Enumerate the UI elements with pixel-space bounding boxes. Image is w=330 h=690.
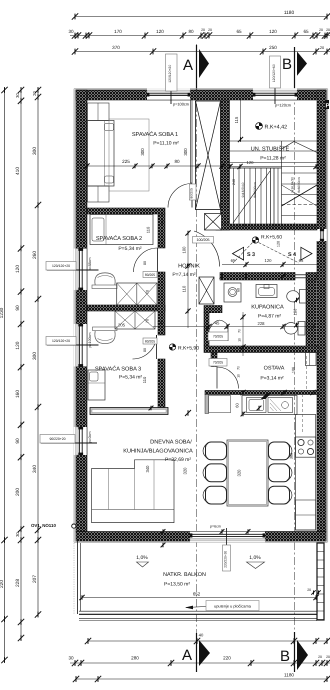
bar wall room3|living [90,408,168,415]
bathroom right wall [306,280,316,346]
wall top [76,90,326,100]
bed room3 [88,370,105,400]
svg-text:115: 115 [234,116,239,123]
room1 interior dims [87,165,230,167]
svg-text:10: 10 [237,374,241,378]
svg-text:100/205: 100/205 [197,238,210,242]
bottom dim line 40 [88,640,327,642]
svg-text:110: 110 [146,226,151,233]
svg-text:228: 228 [15,579,21,587]
svg-text:A: A [183,57,193,74]
top dim line 370/250 [75,51,330,53]
svg-text:70: 70 [145,290,149,294]
door room1 80/205 [191,184,193,208]
svg-text:340: 340 [32,465,38,473]
svg-text:80: 80 [174,159,180,164]
svg-text:1180: 1180 [284,10,295,16]
svg-text:70/205: 70/205 [213,361,223,365]
label box window W5 [40,435,75,444]
svg-text:p=100cm: p=100cm [88,333,92,348]
bed room1 wardrobe [88,103,110,121]
svg-text:20: 20 [208,28,212,32]
svg-text:370: 370 [112,45,120,50]
carpet room1 [109,119,149,191]
svg-text:410: 410 [15,167,21,175]
balcony 20 dim [311,590,315,594]
svg-text:110: 110 [142,376,147,383]
svg-text:240: 240 [232,179,236,185]
duct below bathroom [306,353,317,366]
top dim line total 1180 [75,16,327,18]
svg-text:1,0%: 1,0% [136,555,148,561]
svg-text:40: 40 [199,633,204,638]
svg-text:P=4,87 m²: P=4,87 m² [258,314,282,320]
svg-text:80: 80 [143,261,147,265]
svg-text:60: 60 [237,288,241,292]
svg-text:300: 300 [32,147,38,155]
window W2 top p=120 [253,88,297,100]
svg-text:p=88cm: p=88cm [88,258,92,271]
section line B [294,47,296,672]
svg-text:20: 20 [318,655,322,659]
uputenje box [206,601,259,611]
svg-text:228: 228 [258,321,266,326]
svg-text:207: 207 [32,575,38,583]
svg-text:P=13,50 m²: P=13,50 m² [164,582,190,588]
corridor wall lower (room3) [158,359,165,412]
svg-text:186: 186 [293,308,298,315]
svg-text:P=3,14 m²: P=3,14 m² [260,376,284,382]
svg-text:70/205: 70/205 [213,335,223,339]
svg-text:OV1, NO110: OV1, NO110 [31,523,56,528]
svg-text:20: 20 [326,28,330,32]
washing machine [224,283,241,302]
uputenje leader arrow [186,607,206,608]
svg-text:65: 65 [236,29,242,34]
balcony bottom edge [79,610,317,612]
svg-text:70: 70 [237,366,241,370]
svg-text:120/120+60: 120/120+60 [272,64,276,82]
window W1 top p=100 [147,88,190,100]
wardrobe room2 [117,283,157,305]
svg-text:220: 220 [0,580,5,588]
door-window right stair landing [316,229,326,241]
svg-text:120/120+20: 120/120+20 [52,339,70,343]
dining table [227,440,268,506]
svg-text:120: 120 [265,258,273,263]
label box window W1 [166,54,178,91]
section marker B top [294,47,296,88]
top dim line segments [70,35,330,37]
svg-text:170: 170 [114,29,122,34]
section marker A top [196,45,198,90]
section marker B bottom [294,632,296,672]
svg-text:106: 106 [292,367,296,373]
svg-text:S 3: S 3 [247,252,255,258]
bathroom left wall stub [204,306,222,313]
svg-text:8x60/30cm: 8x60/30cm [297,177,301,193]
svg-text:p=0cm: p=0cm [88,432,92,443]
svg-text:KUHINJA/BLAGOVAONICA: KUHINJA/BLAGOVAONICA [123,448,193,455]
svg-text:90: 90 [15,438,21,444]
bottom dim line 280/220 [70,662,330,664]
svg-text:UN. STUBIŠTE: UN. STUBIŠTE [251,146,290,153]
kupaonica dims [153,326,313,328]
balcony sliding door opening 220/220+30 [190,531,265,542]
corridor wall upper (room2) [158,214,165,248]
bathroom bottom wall [204,346,319,353]
skylight S3 [233,247,244,260]
svg-text:205: 205 [118,323,126,328]
svg-text:p=6cm: p=6cm [210,525,221,529]
stair bottom wall [216,224,317,230]
svg-text:1230: 1230 [0,307,5,318]
insulation outline [74,88,328,90]
svg-text:120: 120 [277,241,281,247]
svg-text:80/205: 80/205 [190,188,194,198]
faucet [262,394,270,399]
svg-text:20: 20 [320,46,324,50]
svg-text:160: 160 [15,390,21,398]
bathroom shaft X-box [199,277,214,304]
wall hodnik|ostava [211,353,217,367]
svg-text:p=120cm: p=120cm [275,103,291,108]
stair direction diagonals [233,171,270,223]
svg-text:P=5,34 m²: P=5,34 m² [119,375,143,381]
wall right [317,90,326,532]
misc tick crosses [220,274,225,279]
svg-text:220: 220 [223,656,231,661]
svg-text:250: 250 [269,45,277,50]
svg-text:120: 120 [269,29,277,34]
svg-text:120/120+20: 120/120+20 [168,65,172,83]
wall room1|room2 [87,208,165,214]
small shaft with X [205,214,222,231]
svg-text:65: 65 [299,258,304,263]
window W4 left room3 [74,324,87,367]
svg-text:70: 70 [237,329,241,333]
svg-text:65: 65 [303,29,309,34]
svg-text:320: 320 [183,467,188,475]
window W5 left living [74,427,87,455]
left dim col total 1230 [4,90,6,660]
section line A [196,44,198,672]
svg-text:20: 20 [32,91,37,96]
desk room3 [93,327,118,331]
svg-text:300: 300 [183,148,188,156]
wall shaft|stair [221,100,230,230]
svg-text:NATKR. BALKON: NATKR. BALKON [163,572,206,578]
svg-text:65: 65 [231,258,236,263]
svg-text:P=5,34 m²: P=5,34 m² [118,246,142,252]
svg-text:280: 280 [131,656,139,661]
svg-text:uputenje u pločicama: uputenje u pločicama [214,603,252,608]
svg-text:SPAVAĆA SOBA 3: SPAVAĆA SOBA 3 [95,366,141,373]
bed room2 [90,215,153,245]
wall left [76,90,87,532]
svg-text:R.K+5,60: R.K+5,60 [261,235,282,241]
svg-text:A: A [182,647,192,664]
R.K +5,90 marker [169,344,175,350]
stair dim line [230,166,318,168]
svg-text:P=7,14 m²: P=7,14 m² [172,272,196,278]
svg-text:1180: 1180 [284,673,294,678]
svg-text:B: B [280,648,290,665]
svg-text:220/220+30: 220/220+30 [224,551,228,568]
balcony right pillar strip [317,543,324,620]
balcony dim 652 [82,597,316,599]
corridor wall mid [158,272,165,335]
svg-text:S 4: S 4 [288,252,296,258]
svg-text:30: 30 [68,29,74,34]
svg-text:120: 120 [247,160,255,165]
svg-text:B: B [282,56,292,73]
svg-text:120: 120 [15,265,21,273]
svg-text:100: 100 [182,246,187,254]
wall ostava|kitchen [205,391,319,395]
svg-text:110: 110 [157,320,164,325]
sink kupaonica [256,285,277,298]
wall bottom [76,532,326,542]
svg-text:1,0%: 1,0% [249,555,261,561]
svg-text:120/120+20: 120/120+20 [52,264,70,268]
svg-text:P: P [326,103,330,110]
sofa [92,460,174,523]
svg-text:20: 20 [319,28,323,32]
svg-text:260: 260 [32,251,38,259]
svg-text:70: 70 [145,319,149,323]
svg-text:8x60/30cm: 8x60/30cm [253,182,257,198]
svg-text:20: 20 [326,655,330,659]
toilet [298,322,305,336]
svg-text:80/205: 80/205 [145,339,155,343]
door stairwell 100/205 [194,231,220,267]
svg-text:R.K+5,90: R.K+5,90 [178,346,199,352]
right edge P mark [325,100,329,109]
svg-text:KUPAONICA: KUPAONICA [251,305,284,311]
door room3 80/205 [156,335,158,359]
desk room2 [92,285,117,289]
skylight dim [222,264,317,266]
svg-text:SPAVAĆA SOBA 1: SPAVAĆA SOBA 1 [132,131,178,138]
stair treads lower flights [233,168,235,226]
svg-text:120: 120 [156,29,164,34]
svg-text:300: 300 [140,148,145,156]
window W3 left room2 [74,249,87,291]
svg-text:P=11,10 m²: P=11,10 m² [153,141,179,147]
svg-text:P=11,28 m²: P=11,28 m² [260,156,286,162]
svg-text:60: 60 [235,403,240,408]
section marker A bottom [196,633,198,672]
bathroom top wall [220,273,295,281]
balcony left wall [77,541,79,614]
svg-text:110: 110 [182,285,187,292]
left dim col walls/openings [37,90,39,615]
svg-text:90: 90 [15,305,21,311]
svg-text:R.K+4,42: R.K+4,42 [265,125,288,131]
wardrobe room3 top [115,311,155,329]
svg-text:80/205: 80/205 [145,273,155,277]
svg-text:225: 225 [122,159,130,164]
stove [296,437,316,457]
door bathroom 70/205 [209,320,229,331]
stair shaft [196,101,221,210]
kitchen sink unit [242,396,297,415]
skylight S4 [301,247,312,260]
svg-text:20: 20 [201,28,205,32]
dining chairs [206,442,227,460]
label box window W2 [270,56,281,88]
bidet [300,290,307,304]
svg-text:45: 45 [215,321,220,326]
label box window W4 [46,337,76,346]
left dim col segments [20,90,22,640]
hodnik interior dim [187,231,189,328]
svg-text:9x16,5/4,0: 9x16,5/4,0 [241,182,245,197]
door ostava 70/205 [217,367,239,389]
svg-text:120: 120 [15,341,21,349]
svg-text:80: 80 [143,348,147,352]
svg-text:OSTAVA: OSTAVA [264,366,285,372]
wall room2|room3 [87,305,165,311]
svg-text:10: 10 [237,338,241,342]
svg-text:652: 652 [193,592,201,597]
bottom dim line 1180 [76,678,327,680]
bed room1 [88,121,115,187]
kitchen dashes [302,394,304,434]
svg-text:30: 30 [15,93,20,98]
svg-text:90/220+20: 90/220+20 [49,437,65,441]
stair treads right flight [230,140,318,142]
label box window W3 [46,262,76,271]
door room2 80/205 [157,248,159,272]
svg-text:80: 80 [188,29,194,34]
svg-text:30: 30 [68,656,74,661]
svg-text:300: 300 [32,352,38,360]
svg-text:20: 20 [307,588,311,592]
svg-text:340: 340 [145,465,150,473]
kitchen tall cabinet [209,396,231,413]
balcony door label [223,545,231,571]
skylight projection dashes [233,243,253,264]
kitchen counter right [296,415,316,531]
svg-text:30: 30 [15,532,20,537]
thin wall room1|shaft [191,100,193,183]
svg-text:200: 200 [15,488,21,496]
svg-text:DNEVNA SOBA/: DNEVNA SOBA/ [150,439,192,446]
svg-text:320: 320 [237,469,242,477]
R.K +5,60 marker [252,237,258,243]
svg-text:p=100cm: p=100cm [173,102,189,107]
svg-text:9x16,84/30: 9x16,84/30 [290,177,294,193]
R.K +4,42 marker [256,123,263,130]
svg-text:65: 65 [161,220,165,224]
